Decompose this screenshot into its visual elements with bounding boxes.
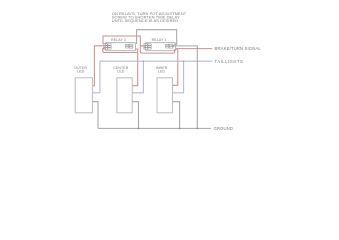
junction ground relay <box>197 128 199 130</box>
junction blue inner <box>183 60 185 62</box>
junction relay1 right pin <box>173 45 175 47</box>
relay U1 body <box>146 43 176 51</box>
relay U2 left pin labels <box>108 44 111 49</box>
wire: blue drop to OUTER LED <box>92 61 100 93</box>
OUTER LED label <box>74 66 87 74</box>
wire: red continue down to relay1 under-loop <box>140 46 174 53</box>
note text block <box>112 11 187 23</box>
relay U1 left pin labels <box>148 44 151 49</box>
CENTER LED box <box>117 78 132 113</box>
junction ground inner <box>179 128 181 130</box>
relay U2 right pin boxes <box>129 44 133 48</box>
svg-text:RELAY 2: RELAY 2 <box>111 38 126 42</box>
wire: gray ground stub CENTER LED <box>132 102 138 129</box>
relay U2 left pin boxes <box>104 44 108 50</box>
CENTER LED label <box>113 66 129 74</box>
wire: gray jumper loop from relay2 right pin over to relay1 right pin <box>137 30 177 45</box>
svg-text:TAILLIGHTS: TAILLIGHTS <box>215 59 244 64</box>
wire: blue drop to CENTER LED <box>132 61 143 93</box>
OUTER LED box <box>75 78 92 113</box>
relay U1 right pin boxes <box>169 44 173 48</box>
junction blue center <box>143 60 145 62</box>
wire: gray ground stub OUTER LED <box>92 102 98 129</box>
relay U1 left pin boxes <box>144 44 148 50</box>
svg-text:RELAY 1: RELAY 1 <box>152 38 167 42</box>
svg-text:BRAKE/TURN SIGNAL: BRAKE/TURN SIGNAL <box>215 46 262 51</box>
wire: blue taillights line <box>100 60 212 62</box>
junction ground center <box>138 128 140 130</box>
wire: red brake/turn signal line from relay1 right pin <box>176 48 213 50</box>
junction gray cross on taillights <box>197 60 199 62</box>
relay U2 right pin labels <box>125 44 128 48</box>
wire: red brake feed jump over relay2 to relay1 left pin <box>103 36 146 46</box>
svg-text:LED: LED <box>117 70 125 74</box>
wire: gray ground from relay1 right pin down to ground rail <box>174 46 198 128</box>
svg-text:LED: LED <box>77 70 85 74</box>
wire: red drop from relay1 right pin to INNER LED <box>173 49 178 86</box>
INNER LED box <box>157 78 173 113</box>
wire: ground rail <box>98 127 211 129</box>
relay U2 body <box>106 43 136 51</box>
svg-text:GROUND: GROUND <box>214 126 234 131</box>
wire: red relay2 under-loop <box>103 48 138 53</box>
relay U1 right pin labels <box>165 44 168 48</box>
wire: gray ground stub INNER LED <box>173 102 180 129</box>
INNER LED label <box>156 66 168 74</box>
svg-text:UNTIL SEQUENCE IS AS DESIRED: UNTIL SEQUENCE IS AS DESIRED <box>112 18 178 23</box>
wire: blue drop to INNER LED <box>173 61 184 93</box>
wire: red drop from relay2 loop to CENTER LED <box>132 53 138 86</box>
svg-text:LED: LED <box>158 70 166 74</box>
wire: red relay2 left stub + drop to OUTER LED <box>92 46 105 86</box>
